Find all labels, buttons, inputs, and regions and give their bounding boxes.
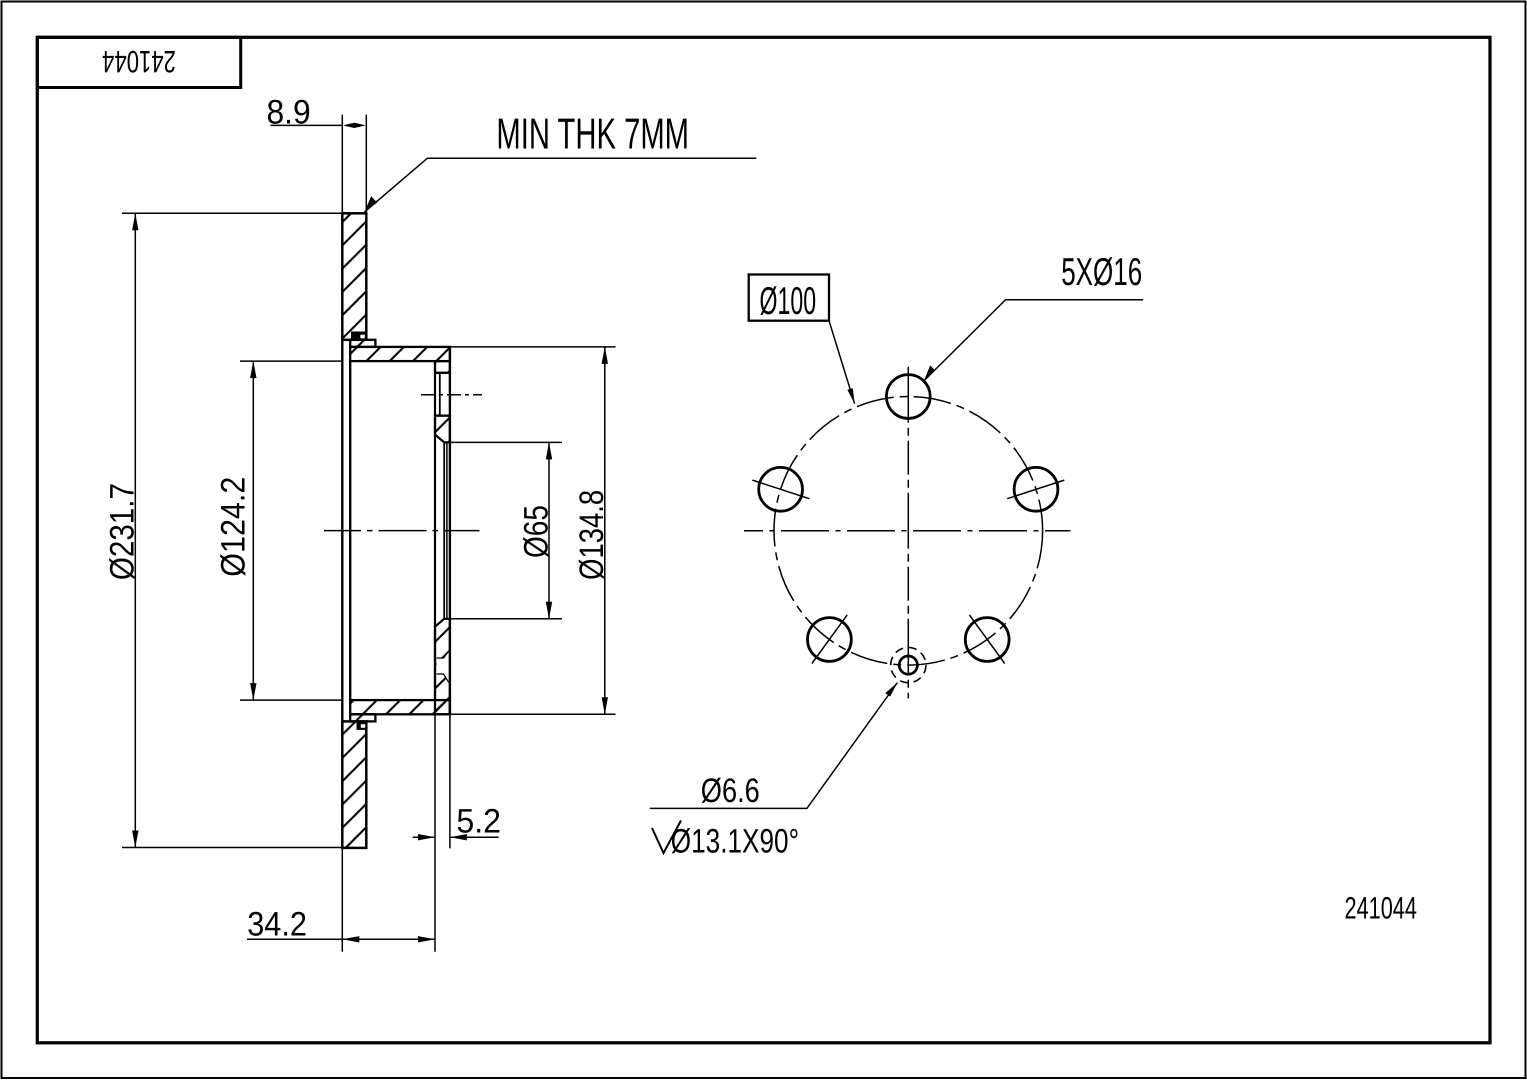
svg-text:5XØ16: 5XØ16 xyxy=(1061,251,1142,294)
bore gap verticals xyxy=(443,442,445,618)
dia100 label box xyxy=(749,275,829,321)
surface check symbol xyxy=(652,821,681,854)
bolt hole lower left xyxy=(808,618,852,662)
bolt hole upper left xyxy=(759,467,803,511)
boss lower xyxy=(350,714,375,721)
dim dia231.7 line xyxy=(134,213,136,847)
radial tick lower left hole xyxy=(812,615,847,664)
dim 8.9 ext lines xyxy=(341,115,343,214)
svg-text:MIN THK 7MM: MIN THK 7MM xyxy=(496,110,689,158)
dim dia65 line xyxy=(548,442,550,618)
disc inner face line left xyxy=(341,340,343,722)
hub bar right edge xyxy=(449,347,451,714)
notch lower xyxy=(361,724,365,728)
bolt hole top xyxy=(886,375,930,419)
dim dia65 text xyxy=(518,505,556,558)
hub bar left edge xyxy=(434,361,436,700)
bolt hole lower right xyxy=(965,618,1009,662)
radial tick lower right hole xyxy=(969,615,1004,664)
disc ring upper hatched xyxy=(342,213,366,339)
dim dia231.7 ext lines xyxy=(122,212,341,214)
radial tick upper right hole xyxy=(1007,480,1064,499)
bore edge top xyxy=(444,441,562,443)
hat wall lower hatched xyxy=(350,700,450,714)
dim 8.9 line xyxy=(271,124,343,126)
dim dia124.2 ext lines xyxy=(240,360,342,362)
svg-text:Ø134.8: Ø134.8 xyxy=(573,490,611,580)
title text 241044 rotated 180 xyxy=(102,44,176,79)
svg-text:Ø124.2: Ø124.2 xyxy=(215,477,253,577)
hub bar top segment xyxy=(435,361,450,373)
svg-text:241044: 241044 xyxy=(102,44,176,79)
bore edge bottom xyxy=(444,618,562,620)
horizontal centerline xyxy=(744,530,1070,532)
title box top-left xyxy=(37,37,240,87)
5X dia16 leader xyxy=(924,300,1143,381)
bolt hole gap in bar: edges xyxy=(435,372,450,374)
radial tick upper left hole xyxy=(752,480,809,499)
small hole cutout in lower bar xyxy=(437,651,449,683)
leader MIN THK 7MM xyxy=(365,158,757,212)
step corner blob lower xyxy=(357,721,368,730)
dim 34.2 ext line xyxy=(341,849,343,952)
svg-text:Ø100: Ø100 xyxy=(760,280,817,323)
dim dia134.8 line xyxy=(604,347,606,714)
dim 5.2 ext lines xyxy=(434,700,436,952)
svg-text:Ø6.6: Ø6.6 xyxy=(701,772,760,810)
step corner blob upper xyxy=(351,332,367,341)
bolt hole upper right xyxy=(1014,467,1058,511)
svg-text:34.2: 34.2 xyxy=(247,906,307,944)
dim dia124.2 line xyxy=(252,361,254,700)
svg-text:Ø13.1X90°: Ø13.1X90° xyxy=(671,823,799,861)
dim 5.2 lines xyxy=(413,836,435,838)
svg-text:5.2: 5.2 xyxy=(456,802,501,840)
small hole countersink dashed xyxy=(891,648,926,683)
disc ring lower hatched xyxy=(342,721,366,848)
svg-text:Ø65: Ø65 xyxy=(518,505,556,558)
bolt hole centerline xyxy=(421,394,482,396)
dim dia134.8 text xyxy=(573,490,611,580)
disc inner face line right xyxy=(349,361,351,700)
svg-text:Ø231.7: Ø231.7 xyxy=(104,483,142,580)
dim dia124.2 text xyxy=(215,477,253,577)
dim dia134.8 ext lines xyxy=(449,346,616,348)
bolt circle dia100 xyxy=(774,397,1043,666)
dia100 leader xyxy=(829,321,855,404)
boss upper xyxy=(350,340,375,347)
dim 34.2 line xyxy=(247,938,435,940)
notch upper xyxy=(360,335,364,339)
hub bar between bolt hole and bore with chamfer xyxy=(435,416,450,443)
small hole solid xyxy=(899,656,917,674)
dia6.6 leader xyxy=(650,683,898,809)
vertical centerline xyxy=(907,367,909,699)
hat wall upper hatched xyxy=(350,347,450,361)
svg-text:8.9: 8.9 xyxy=(267,94,311,132)
dim 8.9 arrows xyxy=(343,123,366,128)
dim dia231.7 text xyxy=(104,483,142,580)
svg-text:241044: 241044 xyxy=(1345,891,1417,926)
main axis centerline xyxy=(324,530,479,532)
hub bar below bore with chamfer xyxy=(435,619,450,714)
